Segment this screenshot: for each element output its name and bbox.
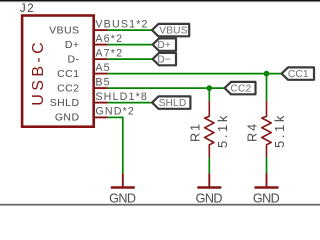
svg-text:D−: D−	[157, 54, 171, 65]
svg-text:5.1k: 5.1k	[215, 113, 230, 148]
wire D-	[108, 58, 153, 60]
ground symbol middle (R1): lead	[208, 173, 210, 186]
top frame line	[0, 0, 320, 1]
svg-text:CC2: CC2	[231, 83, 252, 94]
pin GND stub	[94, 116, 108, 118]
wire D+	[108, 44, 153, 46]
svg-text:SHLD1*8: SHLD1*8	[95, 91, 148, 103]
bottom frame line	[0, 204, 320, 206]
svg-text:CC1: CC1	[57, 68, 79, 80]
pin D+ stub	[94, 44, 108, 46]
svg-text:A5: A5	[95, 62, 110, 74]
svg-text:VBUS1*2: VBUS1*2	[95, 18, 148, 30]
wire GND vertical	[122, 117, 124, 174]
svg-text:VBUS: VBUS	[159, 25, 187, 36]
resistor R4 body	[262, 101, 271, 158]
wire B5 to CC2	[108, 87, 225, 89]
svg-text:USB-C: USB-C	[30, 39, 47, 106]
global label VBUS	[152, 24, 189, 37]
global label D+	[153, 38, 176, 51]
svg-text:D-: D-	[68, 53, 80, 65]
ground symbol right (R4): bar	[255, 186, 279, 188]
svg-text:5.1k: 5.1k	[272, 113, 287, 148]
svg-text:GND: GND	[196, 192, 223, 206]
svg-text:J2: J2	[20, 3, 35, 15]
wire R1 bottom	[208, 158, 210, 174]
svg-text:A6*2: A6*2	[95, 33, 123, 45]
svg-text:GND: GND	[55, 111, 80, 123]
svg-text:GND: GND	[109, 192, 136, 206]
pin D- stub	[94, 58, 108, 60]
ground symbol middle (R1): bar	[197, 186, 221, 188]
svg-text:SHLD: SHLD	[159, 98, 187, 109]
pin SHLD stub	[94, 102, 108, 104]
global label CC1	[282, 67, 314, 80]
pin B5 stub	[94, 87, 108, 89]
svg-text:A7*2: A7*2	[95, 47, 123, 59]
svg-text:CC1: CC1	[288, 69, 309, 80]
svg-text:D+: D+	[157, 40, 171, 51]
wire SHLD	[108, 102, 152, 104]
svg-text:B5: B5	[95, 76, 110, 88]
junction on A5 wire at R4	[264, 71, 270, 77]
wire R4 bottom	[266, 158, 268, 174]
svg-text:VBUS: VBUS	[49, 24, 79, 36]
svg-text:GND*2: GND*2	[95, 105, 135, 117]
svg-text:SHLD: SHLD	[50, 97, 80, 109]
wire GND horizontal	[108, 116, 123, 118]
svg-text:R1: R1	[188, 122, 202, 142]
wire R1 top	[208, 88, 210, 101]
svg-text:R4: R4	[246, 122, 260, 142]
pin VBUS stub	[94, 29, 108, 31]
connector U=J2 USB-C symbol body	[22, 16, 94, 127]
pin A5 stub	[94, 73, 108, 75]
wire A5 to CC1	[108, 73, 282, 75]
svg-text:GND: GND	[253, 192, 280, 206]
svg-text:CC2: CC2	[57, 82, 79, 94]
wire R4 top	[266, 74, 268, 101]
global label SHLD	[152, 96, 190, 109]
svg-text:D+: D+	[65, 39, 80, 51]
ground symbol left (J2 GND net): lead	[122, 173, 124, 186]
global label D-	[153, 53, 176, 66]
junction on B5 wire at R1	[207, 85, 213, 91]
ground symbol right (R4): lead	[266, 173, 268, 186]
ground symbol left (J2 GND net): bar	[111, 186, 135, 188]
wire VBUS	[108, 29, 152, 31]
resistor R1 body	[205, 101, 214, 158]
global label CC2	[225, 82, 256, 95]
